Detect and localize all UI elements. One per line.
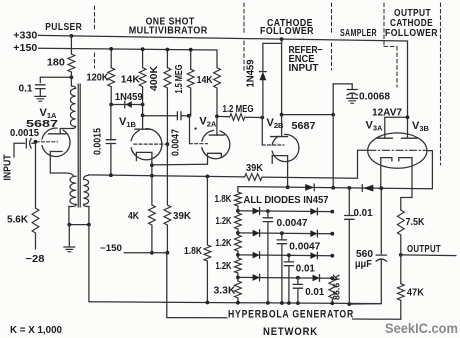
svg-text:1N459: 1N459 — [245, 59, 257, 87]
svg-text:0.0047: 0.0047 — [289, 241, 320, 253]
svg-text:OUTPUT: OUTPUT — [407, 243, 441, 255]
svg-text:14K: 14K — [197, 74, 213, 86]
svg-text:180: 180 — [47, 57, 65, 69]
svg-text:INPUT: INPUT — [2, 154, 14, 180]
svg-text:0.01: 0.01 — [296, 263, 315, 275]
svg-text:0.1: 0.1 — [19, 83, 33, 95]
svg-text:1.8K: 1.8K — [215, 193, 232, 205]
svg-text:4K: 4K — [128, 210, 139, 222]
svg-text:0.0015: 0.0015 — [10, 127, 39, 139]
svg-text:−28: −28 — [26, 254, 45, 265]
svg-text:86.6 K: 86.6 K — [332, 274, 342, 300]
svg-text:SAMPLER: SAMPLER — [340, 28, 377, 39]
svg-text:120K: 120K — [87, 72, 109, 84]
svg-text:0.0047: 0.0047 — [170, 129, 182, 156]
svg-text:47K: 47K — [407, 287, 424, 299]
svg-text:K = X 1,000: K = X 1,000 — [10, 325, 62, 336]
svg-text:14K: 14K — [121, 74, 140, 86]
svg-text:7.5K: 7.5K — [406, 216, 425, 228]
svg-text:μμF: μμF — [355, 258, 373, 270]
svg-text:1N459: 1N459 — [115, 91, 143, 103]
svg-text:0.0015: 0.0015 — [92, 128, 104, 155]
svg-text:0.01: 0.01 — [305, 286, 324, 298]
svg-text:3.3K: 3.3K — [214, 285, 236, 297]
svg-text:MULTIVIBRATOR: MULTIVIBRATOR — [129, 26, 208, 37]
svg-text:−150: −150 — [100, 243, 122, 253]
svg-text:1.2 MEG: 1.2 MEG — [223, 103, 254, 115]
svg-text:+150: +150 — [13, 43, 37, 54]
svg-text:1.2K: 1.2K — [216, 260, 232, 272]
svg-text:5687: 5687 — [292, 120, 316, 132]
svg-text:1.2K: 1.2K — [216, 215, 232, 227]
svg-text:HYPERBOLA GENERATOR: HYPERBOLA GENERATOR — [228, 309, 354, 321]
svg-text:0.0068: 0.0068 — [359, 91, 390, 103]
svg-text:0.0047: 0.0047 — [277, 217, 308, 229]
svg-text:12AV7: 12AV7 — [372, 107, 402, 119]
svg-text:0.01: 0.01 — [354, 207, 373, 219]
svg-text:39K: 39K — [173, 210, 191, 222]
svg-text:SeekIC.com: SeekIC.com — [385, 321, 458, 336]
svg-text:1.8K: 1.8K — [184, 245, 202, 257]
svg-text:1.2K: 1.2K — [216, 237, 232, 249]
svg-text:PULSER: PULSER — [45, 22, 82, 33]
svg-text:5.6K: 5.6K — [7, 214, 28, 226]
svg-text:ALL DIODES IN457: ALL DIODES IN457 — [244, 194, 329, 206]
svg-text:+330: +330 — [13, 30, 37, 41]
svg-text:FOLLOWER: FOLLOWER — [260, 26, 314, 37]
svg-text:NETWORK: NETWORK — [263, 326, 318, 338]
svg-text:39K: 39K — [246, 162, 263, 174]
svg-text:INPUT: INPUT — [289, 63, 319, 74]
svg-text:400K: 400K — [148, 66, 160, 91]
svg-text:1.5 MEG: 1.5 MEG — [173, 65, 185, 94]
svg-text:FOLLOWER: FOLLOWER — [385, 28, 438, 39]
